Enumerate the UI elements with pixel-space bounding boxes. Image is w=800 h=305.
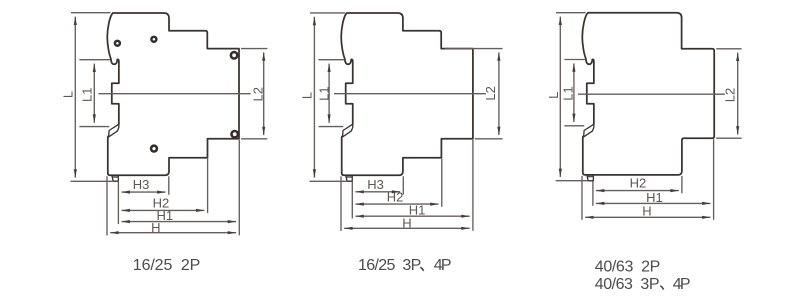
rivet holes fig1 (114, 36, 239, 153)
center line fig1 (98, 93, 250, 95)
dimension L2 fig1 (263, 52, 265, 135)
svg-text:H3: H3 (133, 177, 150, 192)
dimension L1 fig2 (328, 64, 330, 123)
dimension H3 fig2 (355, 191, 400, 193)
extension lines fig2 right (445, 49, 503, 139)
svg-text:16/25 3P: 16/25 3P (358, 257, 421, 274)
svg-text:L2: L2 (483, 86, 498, 100)
svg-text:H: H (402, 216, 411, 231)
dimension H fig1 (110, 232, 236, 234)
svg-text:4P: 4P (673, 276, 691, 293)
svg-text:L: L (61, 91, 76, 98)
svg-text:4P: 4P (434, 257, 452, 274)
svg-text:L2: L2 (723, 88, 738, 102)
dimension H2 fig2 (355, 203, 438, 205)
svg-text:L: L (300, 92, 315, 99)
dimension H fig3 (585, 216, 710, 218)
extension lines fig3 bottom (582, 139, 714, 220)
extension lines fig1 bottom (107, 140, 239, 236)
svg-text:L2: L2 (250, 87, 265, 101)
DIN rail release clip fig3 (584, 124, 594, 137)
center line fig2 (334, 93, 486, 95)
center line fig3 (578, 93, 725, 95)
breaker body fig2 (341, 13, 473, 181)
svg-text:H3: H3 (367, 177, 384, 192)
dimension H2 fig1 (122, 209, 205, 211)
ideographic comma fig2 caption (421, 268, 423, 271)
dimension L fig2 (313, 17, 315, 178)
svg-text:H: H (642, 203, 651, 218)
svg-text:16/25 2P: 16/25 2P (133, 257, 201, 274)
extension lines fig2 left (310, 13, 347, 181)
svg-text:H2: H2 (630, 176, 647, 191)
extension lines fig2 bottom (341, 140, 473, 231)
svg-text:L1: L1 (80, 88, 95, 102)
dimension H2 fig3 (596, 190, 679, 192)
dimension L fig3 (559, 17, 561, 177)
dimension L1 fig1 (93, 64, 95, 123)
svg-text:L1: L1 (317, 86, 332, 100)
extension lines fig3 left (556, 13, 588, 181)
breaker body fig1 (107, 13, 239, 181)
dimension L2 fig2 (498, 52, 500, 135)
extension lines fig3 right (716, 49, 741, 138)
extension lines fig1 left (71, 13, 113, 182)
breaker body fig3 (582, 13, 714, 181)
svg-text:L: L (546, 92, 561, 99)
svg-text:L1: L1 (561, 86, 576, 100)
svg-text:H2: H2 (387, 189, 404, 204)
dimension H1 fig2 (355, 215, 469, 217)
ideographic comma fig3 caption (661, 286, 663, 289)
dimension H3 fig1 (122, 191, 166, 193)
extension lines fig1 right (241, 49, 267, 139)
dimension L2 fig3 (737, 53, 739, 135)
dimension L fig1 (74, 17, 76, 178)
dimension H fig2 (344, 227, 470, 229)
dimension L1 fig3 (573, 63, 575, 122)
dimension H1 fig3 (596, 202, 711, 204)
svg-text:H: H (151, 220, 160, 235)
svg-text:40/63 2P: 40/63 2P (595, 258, 661, 275)
svg-text:40/63 3P: 40/63 3P (595, 276, 660, 293)
dimension H1 fig1 (122, 221, 237, 223)
mounting foot fig3 (587, 175, 593, 181)
